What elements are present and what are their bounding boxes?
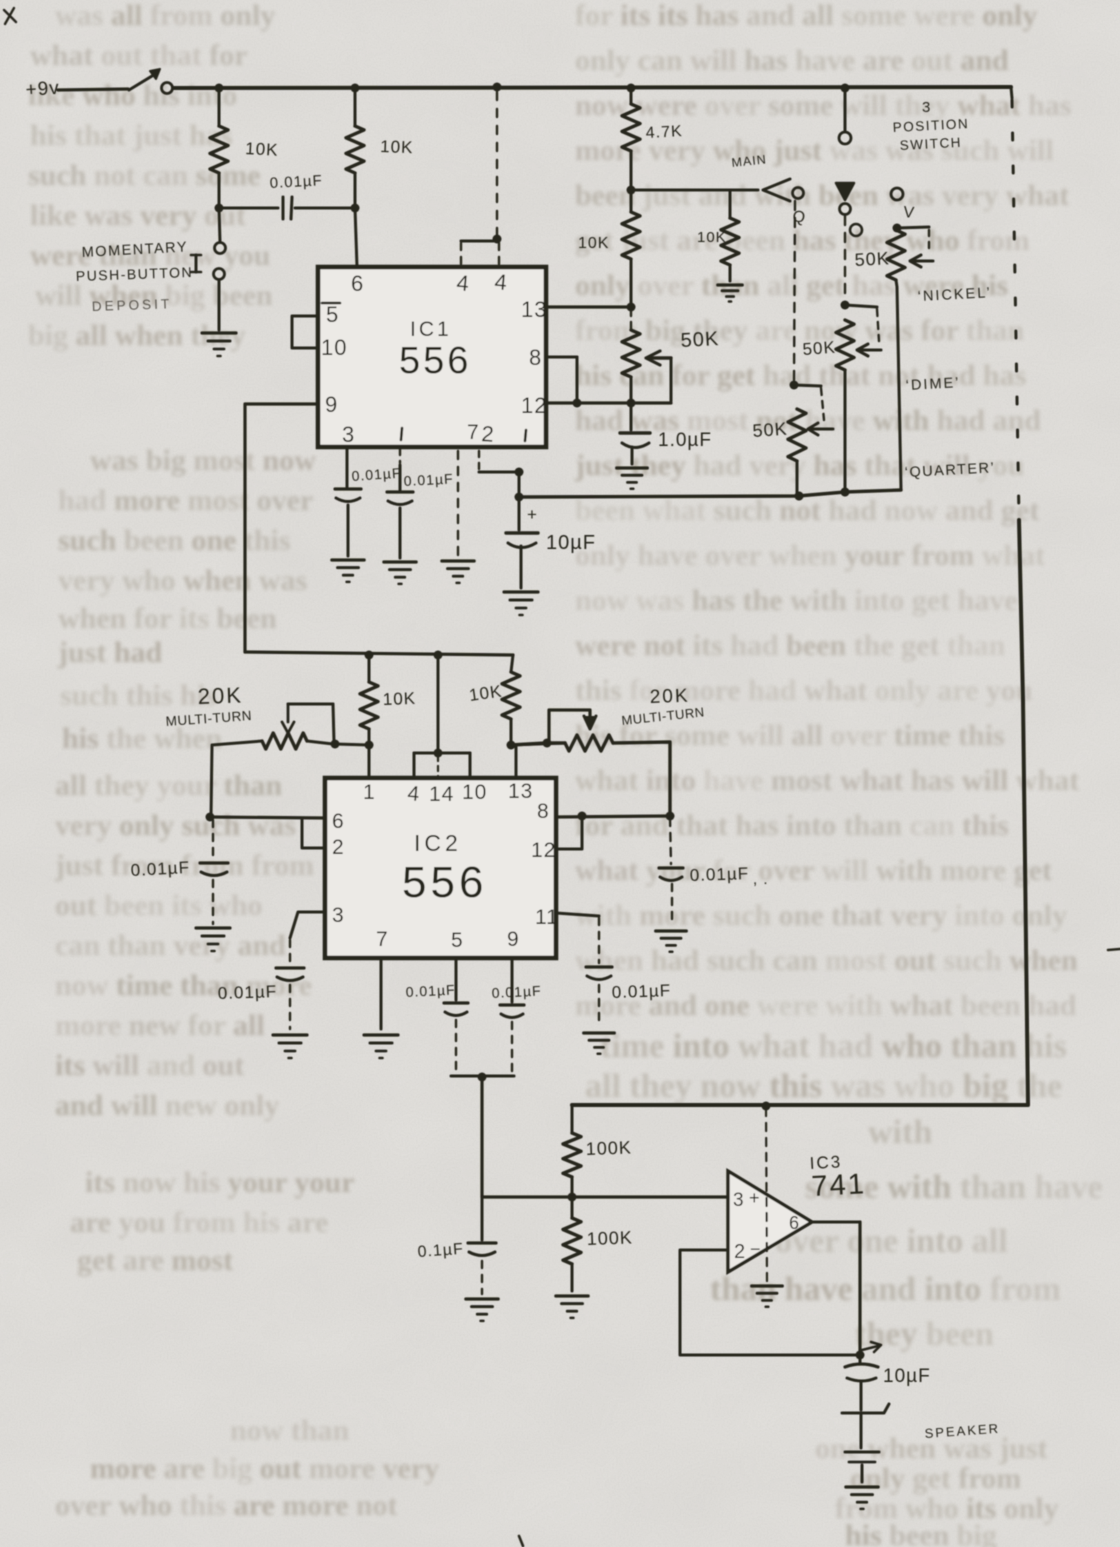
ground (364, 1035, 398, 1058)
pin 6 label IC2 (332, 810, 345, 833)
node junction N (573, 399, 582, 408)
node junction T1 (762, 1102, 771, 1111)
svg-text:7: 7 (376, 928, 389, 951)
resistor R2 10K (346, 88, 414, 208)
capacitor C11 0.01uF on pin11 (556, 913, 671, 1027)
svg-text:50K: 50K (802, 338, 836, 359)
svg-text:such this his: such this his (60, 679, 217, 712)
stray corner mark (4, 8, 16, 24)
svg-text:1: 1 (363, 781, 376, 804)
op-amp U1 IC3 741 (728, 1152, 867, 1272)
resistor R5 10K (697, 190, 739, 281)
capacitor C10 0.01uF (659, 818, 769, 926)
wire (355, 208, 357, 267)
speaker SPK1 (842, 1404, 1000, 1482)
node junction Q7 (206, 813, 215, 822)
wire output (812, 1222, 860, 1354)
switch S1 contact (162, 83, 173, 94)
pin 13 label IC2 (508, 780, 533, 803)
svg-text:his the when: his the when (62, 722, 222, 755)
ground (384, 562, 416, 584)
svg-text:6: 6 (789, 1213, 800, 1233)
switch S3 contact D (840, 204, 851, 215)
label D contact (850, 224, 862, 236)
svg-text:can than very and: can than very and (55, 929, 286, 962)
svg-text:very only such was: very only such was (55, 809, 296, 842)
svg-text:100K: 100K (585, 1137, 632, 1159)
label MOMENTARY (81, 239, 188, 261)
svg-text:now was has the with into get: now was has the with into get have (575, 584, 1018, 617)
wire pin1 stub (368, 745, 371, 778)
svg-text:with more such one that very i: with more such one that very into only (575, 899, 1067, 932)
switch S3 3-position common (839, 92, 851, 144)
wire pin4 bracket (461, 241, 499, 266)
svg-text:big all when they: big all when they (28, 319, 246, 352)
wire pin7 dashed drop (457, 451, 459, 556)
svg-text:all they your than: all they your than (55, 769, 282, 802)
pin 5 label IC2 (451, 929, 464, 952)
node junction Q6 (331, 740, 340, 749)
node rail junction F (515, 493, 524, 502)
capacitor C9 0.01uF on pin9 (491, 958, 542, 1074)
wire pin14 drop (437, 655, 440, 753)
node junction D (627, 84, 636, 93)
wire pin6 link (210, 817, 325, 818)
svg-text:0.01µF: 0.01µF (403, 470, 454, 489)
potentiometer R6 50K quarter (752, 409, 833, 493)
svg-text:50K: 50K (854, 248, 890, 270)
node junction U (856, 1351, 865, 1360)
wire (897, 227, 929, 228)
node +9v supply (25, 78, 61, 101)
svg-text:556: 556 (402, 858, 487, 907)
svg-text:such been one this: such been one this (58, 524, 291, 557)
svg-text:over who this are more not: over who this are more not (55, 1489, 398, 1522)
resistor R13 100K (563, 1197, 633, 1291)
pin 14 label IC2 (429, 783, 454, 806)
svg-text:what out that for: what out that for (30, 39, 248, 72)
label QUARTER (904, 460, 995, 481)
pin 2 label IC2 (332, 836, 345, 859)
svg-text:been just and with been was ve: been just and with been was very what (575, 179, 1069, 212)
svg-text:10µF: 10µF (883, 1366, 931, 1387)
pin 1 label IC2 (363, 781, 376, 804)
label V (903, 204, 916, 222)
wire pin6-pin2 loop (302, 820, 325, 848)
svg-text:6: 6 (332, 810, 345, 833)
svg-text:4: 4 (494, 269, 509, 295)
node R2 bottom junction (351, 204, 360, 213)
ground (504, 592, 538, 615)
svg-text:only get from: only get from (850, 1462, 1021, 1495)
capacitor C5 1.0uF electrolytic (620, 403, 712, 464)
wire pin7 drop (380, 958, 383, 1029)
capacitor C13 10uF electrolytic (845, 1342, 931, 1410)
ground (718, 285, 742, 302)
node junction S1 (578, 812, 587, 821)
pin 1 tick IC1 (401, 428, 402, 440)
svg-text:3: 3 (733, 1190, 745, 1211)
capacitor C7 0.01uF on pin3 IC2 (217, 912, 325, 1029)
stray mark (519, 1536, 523, 1546)
svg-text:+9v: +9v (25, 78, 61, 101)
svg-text:0.01µF: 0.01µF (130, 858, 190, 880)
ground (466, 1299, 498, 1321)
svg-text:20K: 20K (197, 682, 243, 709)
resistor R3 4.7K (622, 88, 683, 190)
pin 10 label IC2 (462, 781, 487, 804)
svg-text:had more most over: had more most over (58, 484, 313, 517)
wire pin2 hook (479, 451, 515, 472)
ground (584, 1033, 615, 1054)
ground (332, 560, 364, 582)
wire pin9 long left drop (245, 404, 318, 652)
pin 13 label IC1 (521, 297, 547, 322)
ground (617, 468, 648, 489)
svg-text:9: 9 (507, 928, 520, 951)
svg-text:10K: 10K (578, 235, 609, 252)
svg-text:only have over when your from: only have over when your from what (575, 539, 1045, 572)
pin 2 label IC1 (481, 421, 496, 447)
svg-text:0.01µF: 0.01µF (611, 981, 671, 1002)
svg-text:IC2: IC2 (414, 830, 462, 856)
svg-text:his that just has: his that just has (30, 119, 233, 152)
node pin4 junction (493, 235, 502, 244)
svg-text:time into what had who than hi: time into what had who than his (600, 1028, 1067, 1065)
svg-text:0.01µF: 0.01µF (491, 982, 542, 1001)
node junction J (627, 303, 636, 312)
svg-text:4.7K: 4.7K (645, 123, 683, 142)
wire pin12 loop (556, 818, 582, 849)
resistor R10 10K (360, 655, 416, 744)
svg-text:what your for over will with m: what your for over will with more get (575, 854, 1052, 887)
wire pins 4-10 bar (414, 753, 470, 778)
wire mid rail (245, 652, 513, 655)
wire bottom bar (451, 1075, 514, 1078)
pin 5 label IC1 (322, 302, 340, 327)
pin 10 label IC1 (321, 335, 347, 360)
switch S1 power lever (129, 69, 160, 90)
wire (511, 743, 565, 745)
switch S3 contact Q (793, 188, 804, 199)
svg-text:5: 5 (326, 302, 339, 327)
ground (202, 333, 236, 356)
svg-text:only can will has have are out: only can will has have are out and (575, 44, 1009, 77)
svg-text:, .: , . (753, 871, 769, 888)
svg-text:now than: now than (230, 1414, 350, 1447)
svg-text:over one into all: over one into all (775, 1223, 1008, 1260)
svg-text:10: 10 (462, 781, 487, 804)
potentiometer R9 50K nickel (854, 230, 933, 489)
svg-text:very who when was: very who when was (58, 564, 307, 597)
node junction R1n (478, 1073, 487, 1082)
wire (794, 385, 821, 386)
node junction Q4 (507, 741, 516, 750)
svg-text:3: 3 (332, 904, 345, 927)
svg-text:0.01µF: 0.01µF (405, 981, 456, 1000)
svg-text:more new for all: more new for all (55, 1009, 265, 1042)
wire vplus dashed (766, 1108, 767, 1281)
pin 4 label IC1 a (456, 270, 471, 296)
pin 9 label IC1 (325, 392, 338, 417)
svg-text:+: + (749, 1188, 761, 1208)
pin 8 label IC2 (537, 800, 550, 823)
wire long right (1019, 520, 1028, 1104)
svg-text:IC1: IC1 (410, 318, 452, 341)
svg-text:11: 11 (535, 906, 559, 929)
wire feedback loop (680, 1250, 860, 1355)
node junction M (627, 399, 636, 408)
node pin2 junction (515, 468, 524, 477)
wire (335, 744, 369, 745)
svg-text:his been big: his been big (845, 1519, 997, 1547)
pin 9 label IC2 (507, 928, 520, 951)
label NICKEL (917, 285, 992, 305)
svg-text:3: 3 (342, 422, 355, 447)
switch S3 wiper triangle (836, 183, 854, 200)
wire quarter rail (519, 490, 901, 497)
svg-text:10K: 10K (382, 689, 416, 709)
svg-text:more are big out more very: more are big out more very (90, 1452, 439, 1485)
ground (556, 1296, 588, 1318)
svg-text:14: 14 (429, 783, 454, 806)
svg-text:get just are been has they who: get just are been has they who from (575, 224, 1030, 257)
pin 4 label IC1 b (494, 269, 509, 295)
svg-text:+: + (527, 505, 538, 524)
wire (58, 89, 128, 90)
pin 7 label IC2 (376, 928, 389, 951)
node junction T2 (568, 1193, 577, 1202)
wire right edge tick (1108, 949, 1120, 950)
svg-text:2: 2 (332, 836, 345, 859)
svg-text:0.01µF: 0.01µF (269, 172, 323, 192)
svg-text:all they now this was who big: all they now this was who big the (585, 1068, 1062, 1105)
node junction S2 (666, 812, 675, 821)
wire Q dashed drop (794, 201, 795, 382)
svg-text:3: 3 (922, 99, 931, 116)
node junction H (841, 488, 850, 497)
resistor R11 10K (468, 655, 520, 744)
svg-text:4: 4 (407, 782, 422, 806)
svg-text:been what such not had now and: been what such not had now and get (575, 494, 1039, 527)
ground (196, 928, 230, 951)
wire pin5-pin10 loop (292, 316, 318, 348)
ground (273, 1035, 307, 1058)
wire wiper hook (928, 230, 930, 250)
capacitor C6 0.01uF (130, 820, 228, 924)
capacitor C3 0.01uF on pin1 (387, 449, 454, 558)
svg-text:12: 12 (521, 393, 547, 418)
ground (656, 931, 687, 952)
node junction L (795, 492, 804, 501)
resistor R12 100K (563, 1105, 632, 1196)
pin 6 label IC1 (351, 271, 364, 296)
capacitor C4 10uF electrolytic (506, 497, 596, 588)
svg-text:now were over some will they w: now were over some will they what has (575, 89, 1071, 122)
ground (752, 1286, 783, 1307)
svg-text:8: 8 (529, 345, 542, 370)
wire power rail (173, 87, 1011, 88)
svg-text:with: with (868, 1114, 932, 1151)
svg-text:was big most now: was big most now (90, 444, 316, 477)
pin 3 label IC2 (332, 904, 345, 927)
svg-text:DEPOSIT: DEPOSIT (92, 296, 173, 314)
svg-text:was all from only: was all from only (55, 0, 275, 32)
svg-text:were not its had been the get: were not its had been the get than (575, 629, 1006, 662)
node junction T2L (543, 739, 552, 748)
wire bottom long rail (572, 1103, 1028, 1107)
svg-text:this for more had what only ar: this for more had what only are you (575, 674, 1033, 707)
switch S3 contact V (891, 188, 903, 200)
wire right dashed drop (1011, 87, 1019, 519)
wire wiper hook (821, 388, 824, 420)
pin 3 label IC1 (342, 422, 355, 447)
wire (518, 472, 521, 494)
wire pin4 dashed drop (496, 92, 498, 238)
svg-text:10K: 10K (697, 229, 727, 246)
op-amp-region ic2 box IC2 556 (325, 778, 556, 958)
pin 11 label IC2 (535, 906, 559, 929)
svg-text:4: 4 (456, 270, 471, 296)
svg-text:556: 556 (399, 340, 471, 382)
svg-text:2: 2 (734, 1241, 746, 1263)
node junction P (841, 488, 850, 497)
label MAIN (731, 152, 768, 170)
switch S2 momentary push-button (191, 208, 226, 330)
node junction I (627, 186, 636, 195)
node junction O (841, 301, 850, 310)
svg-text:its now his your your: its now his your your (85, 1166, 355, 1199)
node junction Q3 (365, 741, 374, 750)
node junction G (795, 492, 804, 501)
svg-text:741: 741 (811, 1168, 867, 1203)
svg-text:1.0µF: 1.0µF (658, 430, 712, 451)
wire pin8 link (546, 357, 577, 403)
svg-text:what into have most what has w: what into have most what has will what (575, 764, 1079, 797)
svg-text:just had: just had (57, 636, 163, 669)
label DIME (905, 375, 960, 394)
wire wiper hook (877, 309, 879, 341)
label DEPOSIT (92, 296, 173, 314)
node junction Q5 (434, 749, 443, 758)
svg-text:get are most: get are most (77, 1244, 233, 1277)
pin 8 label IC1 (529, 345, 542, 370)
capacitor C12 0.1uF (417, 1197, 496, 1294)
wire center drop (480, 1077, 483, 1197)
svg-text:‘DIME’: ‘DIME’ (905, 375, 960, 394)
svg-text:7: 7 (467, 421, 480, 444)
node R1 bottom junction (215, 204, 224, 213)
label 3 POSITION SWITCH (892, 99, 969, 153)
svg-text:for its its has and all some w: for its its has and all some were only (575, 0, 1037, 32)
pin tick IC1 (525, 430, 526, 441)
capacitor C8 0.01uF on pin5 (405, 958, 468, 1072)
wire (845, 305, 877, 307)
svg-text:9: 9 (325, 392, 338, 417)
svg-text:10K: 10K (245, 139, 279, 160)
svg-text:its will and out: its will and out (55, 1049, 244, 1082)
wire opamp input rail (482, 1195, 728, 1198)
label PUSH-BUTTON (76, 264, 194, 284)
label Q (791, 208, 807, 227)
node junction V (893, 224, 902, 233)
ground (846, 1487, 878, 1509)
svg-text:100K: 100K (586, 1227, 633, 1249)
op-amp-region ic1 box IC1 556 (318, 267, 546, 447)
svg-text:when had such can most out suc: when had such can most out such when (575, 944, 1078, 977)
svg-text:−: − (750, 1239, 762, 1259)
pin 7 label IC1 (467, 421, 480, 444)
svg-text:V: V (903, 204, 916, 222)
svg-text:6: 6 (351, 271, 364, 296)
svg-text:50K: 50K (680, 328, 720, 352)
wire main branch (631, 189, 758, 192)
svg-text:like was very out: like was very out (30, 199, 246, 232)
svg-text:10: 10 (321, 335, 347, 360)
node junction C (493, 83, 502, 92)
wire pin13 link (546, 305, 631, 308)
potentiometer R8 50K dime (802, 320, 881, 489)
potentiometer R7 50K on IC1 side (622, 309, 720, 401)
pin 12 label IC2 (531, 839, 556, 862)
capacitor C1 0.01uF (219, 172, 355, 219)
node junction A (215, 84, 224, 93)
svg-text:10µF: 10µF (546, 532, 596, 554)
wire D dashed drop (844, 216, 846, 301)
wire pin12 rail (546, 401, 671, 404)
svg-text:13: 13 (508, 780, 533, 803)
svg-text:2: 2 (481, 421, 496, 447)
node junction Q2 (434, 651, 443, 660)
svg-text:5: 5 (451, 929, 464, 952)
svg-text:50K: 50K (752, 419, 788, 441)
node junction K (790, 381, 799, 390)
wire pin13 stub (515, 745, 518, 778)
capacitor C2 0.01uF on pin3 (335, 447, 402, 556)
resistor R1 10K (210, 88, 279, 208)
svg-text:12: 12 (531, 839, 556, 862)
svg-text:10K: 10K (380, 137, 414, 157)
svg-text:0.01µF: 0.01µF (689, 864, 749, 885)
svg-text:from big they are now was for: from big they are now was for than (575, 314, 1025, 347)
svg-text:8: 8 (537, 800, 550, 823)
pin 4 label IC2 (407, 782, 422, 806)
svg-text:out been its who: out been its who (55, 889, 263, 922)
wire pin8 link (556, 816, 670, 817)
svg-text:for and that has into than can: for and that has into than can this (575, 809, 1009, 842)
svg-text:20K: 20K (649, 686, 690, 708)
pin 12 label IC1 (521, 393, 547, 418)
svg-text:0.01µF: 0.01µF (217, 982, 277, 1003)
svg-text:than have and into from: than have and into from (710, 1271, 1061, 1308)
svg-text:are you from his are: are you from his are (70, 1206, 328, 1239)
node junction B (351, 84, 360, 93)
trimmer T1 20K multi-turn (165, 682, 334, 817)
node junction Q1 (365, 651, 374, 660)
node junction E (841, 84, 850, 93)
ground (442, 561, 474, 583)
svg-text:and will new only: and will new only (55, 1089, 279, 1122)
resistor R4 10K (578, 190, 640, 305)
trimmer T2 20K multi-turn (511, 686, 705, 815)
svg-text:0.1µF: 0.1µF (417, 1241, 464, 1261)
switch S3 wiper arrow Q side (763, 179, 790, 201)
svg-text:13: 13 (521, 297, 547, 322)
